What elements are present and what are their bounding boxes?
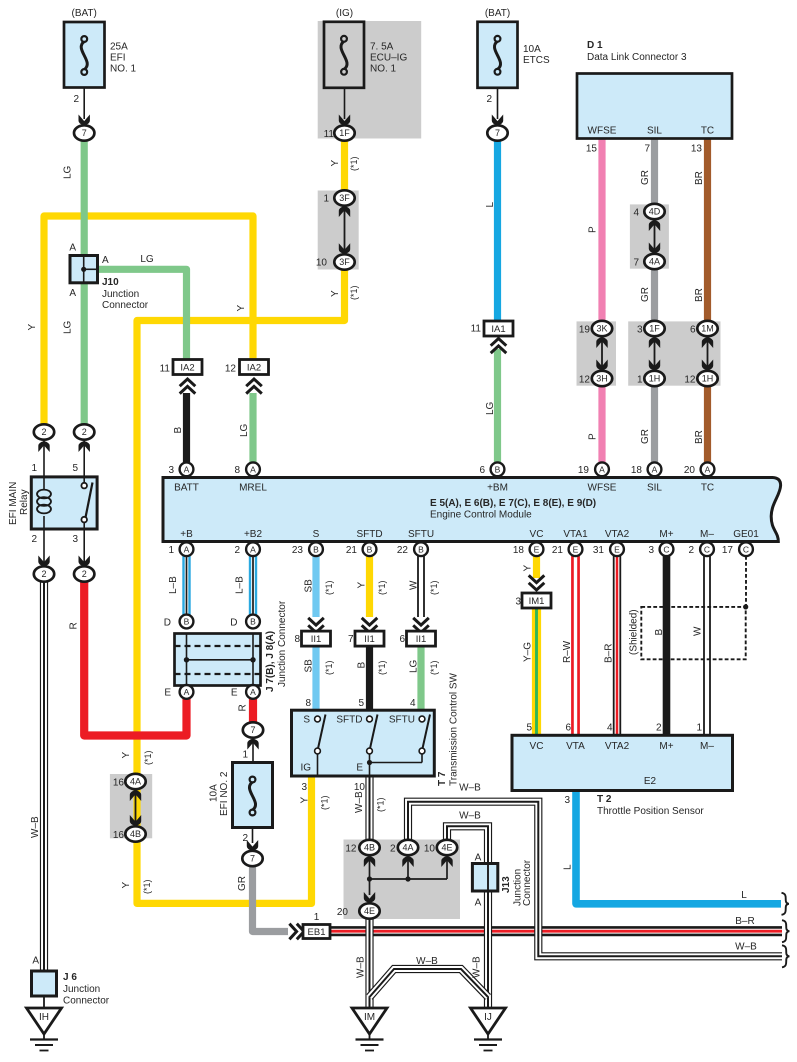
svg-text:2: 2 (656, 723, 662, 734)
wire Y yellow net: relay pin1 / top loop / to 12 IA2 (44, 216, 253, 425)
svg-text:J 7(B), J 8(A): J 7(B), J 8(A) (265, 631, 276, 692)
svg-text:L: L (563, 864, 574, 870)
svg-text:T 7: T 7 (437, 771, 448, 786)
svg-text:Junction: Junction (63, 984, 100, 995)
svg-text:3: 3 (515, 597, 521, 608)
svg-text:LG: LG (409, 659, 420, 673)
wire P WFSE (598, 139, 605, 321)
svg-text:NO. 1: NO. 1 (110, 64, 137, 75)
wire Y from IG fuse 1F to 3F (341, 141, 348, 198)
wire Y from ECM SFTD to II1 (366, 555, 373, 617)
svg-text:10: 10 (424, 844, 436, 855)
svg-text:Y: Y (121, 882, 132, 889)
svg-text:(*1): (*1) (143, 750, 153, 765)
wire B from 11 IA2 to ECM BATT (183, 393, 190, 462)
svg-text:3F: 3F (339, 257, 350, 267)
svg-text:1F: 1F (339, 128, 350, 138)
svg-text:E: E (164, 688, 171, 699)
svg-text:Transmission Control SW: Transmission Control SW (449, 672, 460, 786)
svg-text:22: 22 (397, 545, 409, 556)
svg-text:2: 2 (31, 534, 37, 545)
connector J6 (32, 971, 57, 996)
svg-text:10: 10 (316, 258, 328, 269)
svg-text:(*1): (*1) (320, 795, 330, 810)
svg-text:LG: LG (140, 254, 154, 265)
wire W M- (703, 555, 711, 734)
svg-text:Throttle Position Sensor: Throttle Position Sensor (597, 806, 704, 817)
connector EB1 (289, 924, 304, 940)
svg-text:EFI NO. 2: EFI NO. 2 (219, 771, 230, 816)
label T2 throttle position sensor E2 box (512, 735, 733, 790)
svg-text:(BAT): (BAT) (72, 8, 97, 19)
svg-text:W–B: W–B (459, 783, 481, 794)
svg-text:8: 8 (294, 634, 300, 645)
svg-text:R: R (238, 704, 249, 711)
svg-text:10A: 10A (209, 784, 220, 802)
svg-text:Junction Connector: Junction Connector (277, 600, 288, 687)
svg-text:BR: BR (694, 288, 705, 302)
wire B from II1 to T7 SFTD (366, 646, 373, 710)
wire GR from EFI NO.2 fuse to EB1 (253, 865, 289, 932)
gray background 1F/1M/1H connector (628, 321, 720, 385)
oval 2 relay pin2 (43, 529, 45, 564)
svg-text:(Shielded): (Shielded) (629, 609, 640, 655)
svg-text:7: 7 (348, 634, 354, 645)
wire W-B upper: 4A to right edge bottom (408, 802, 782, 957)
svg-text:W–B: W–B (354, 791, 365, 813)
svg-text:Y: Y (330, 290, 341, 297)
svg-text:4: 4 (633, 208, 639, 219)
svg-text:TC: TC (701, 483, 714, 494)
svg-text:IA2: IA2 (247, 362, 261, 373)
svg-text:7: 7 (495, 128, 500, 138)
gray background 3K/3H connector (577, 321, 617, 385)
wire L-B +B2 to junction D(B) (249, 555, 257, 615)
svg-text:11: 11 (160, 364, 171, 375)
svg-text:WFSE: WFSE (588, 126, 617, 137)
wire R junction E(A) +B2 to EFI NO.2 fuse (249, 698, 257, 723)
svg-text:3: 3 (648, 545, 654, 556)
svg-text:20: 20 (337, 907, 349, 918)
wire W-B ground link IM to IJ (370, 969, 489, 997)
svg-text:B: B (654, 629, 665, 636)
svg-text:IM: IM (364, 1012, 375, 1023)
transmission control switch T7 (292, 710, 435, 776)
svg-text:A: A (184, 464, 190, 474)
svg-text:4D: 4D (649, 207, 661, 217)
svg-text:VC: VC (530, 741, 544, 752)
wire Y yellow net: 3F down, horizontal, down to 4A/4B, bottom horizontal, up to T7 IG (137, 270, 345, 904)
svg-text:(*1): (*1) (324, 660, 334, 675)
svg-text:D: D (230, 618, 237, 629)
svg-text:18: 18 (513, 545, 525, 556)
svg-text:17: 17 (722, 545, 734, 556)
svg-text:S: S (313, 529, 320, 540)
svg-text:B: B (173, 427, 184, 434)
fuse 10A EFI NO.2 (233, 763, 273, 828)
svg-text:Relay: Relay (19, 489, 30, 515)
svg-text:A: A (250, 687, 256, 697)
svg-text:7: 7 (633, 258, 639, 269)
svg-text:19: 19 (579, 325, 591, 336)
svg-text:IA1: IA1 (491, 324, 505, 335)
wire B M+ (663, 555, 671, 734)
svg-text:1: 1 (323, 194, 329, 205)
wire SB from II1 to T7 S (312, 646, 319, 710)
svg-text:NO. 1: NO. 1 (370, 64, 397, 75)
svg-text:A: A (599, 464, 605, 474)
svg-text:21: 21 (346, 545, 358, 556)
wire GR SIL (651, 139, 658, 205)
oval 2 relay pin3 (83, 529, 85, 564)
svg-text:1: 1 (314, 912, 320, 923)
svg-text:Y: Y (27, 324, 38, 331)
svg-text:GR: GR (640, 170, 651, 185)
svg-text:Y: Y (330, 160, 341, 167)
junction connector J13 (472, 864, 497, 892)
svg-text:SIL: SIL (647, 126, 662, 137)
svg-text:3F: 3F (339, 193, 350, 203)
svg-text:A: A (475, 853, 482, 864)
svg-text:13: 13 (691, 144, 703, 155)
svg-text:16: 16 (113, 778, 125, 789)
svg-text:(IG): (IG) (336, 8, 353, 19)
svg-text:Y: Y (357, 582, 368, 589)
svg-text:R–W: R–W (562, 640, 573, 663)
svg-text:VTA2: VTA2 (605, 741, 630, 752)
svg-text:BR: BR (694, 171, 705, 185)
svg-text:1H: 1H (702, 374, 714, 384)
oval 7 above EFI NO.2 fuse (243, 722, 263, 737)
svg-text:M+: M+ (659, 741, 673, 752)
svg-text:T 2: T 2 (597, 794, 612, 805)
svg-text:B–R: B–R (604, 644, 615, 663)
svg-text:A: A (69, 288, 76, 299)
svg-text:Y: Y (523, 565, 534, 572)
svg-text:21: 21 (552, 545, 564, 556)
svg-text:Y: Y (300, 797, 311, 804)
svg-text:B: B (250, 617, 256, 627)
wire LG from 12 IA2 to ECM MREL (249, 393, 256, 462)
svg-text:3: 3 (301, 782, 307, 793)
svg-text:25A: 25A (110, 42, 128, 53)
svg-text:(*1): (*1) (349, 156, 359, 171)
svg-text:L: L (485, 202, 496, 208)
svg-text:Data Link Connector 3: Data Link Connector 3 (587, 52, 687, 63)
svg-text:+B: +B (180, 529, 193, 540)
svg-text:C: C (743, 544, 749, 554)
svg-text:SIL: SIL (647, 483, 662, 494)
svg-text:II1: II1 (416, 634, 427, 645)
svg-text:B: B (357, 662, 368, 669)
svg-text:Engine Control Module: Engine Control Module (430, 510, 532, 521)
svg-text:16: 16 (113, 830, 125, 841)
svg-text:4: 4 (607, 723, 613, 734)
svg-text:4B: 4B (130, 829, 141, 839)
svg-text:SFTU: SFTU (389, 715, 415, 726)
svg-text:W: W (409, 580, 420, 590)
svg-text:4A: 4A (402, 843, 413, 853)
svg-text:3: 3 (168, 465, 174, 476)
svg-text:ECU–IG: ECU–IG (370, 53, 407, 64)
svg-text:IM1: IM1 (529, 596, 545, 607)
svg-text:P: P (588, 226, 599, 233)
svg-text:2: 2 (688, 545, 694, 556)
svg-text:2: 2 (41, 427, 46, 437)
svg-text:J10: J10 (102, 277, 119, 288)
svg-text:W–B: W–B (356, 956, 367, 978)
svg-text:SFTD: SFTD (356, 529, 382, 540)
svg-text:6: 6 (399, 634, 405, 645)
svg-text:B–R: B–R (735, 916, 754, 927)
svg-text:A: A (475, 898, 482, 909)
svg-text:7: 7 (250, 854, 255, 864)
svg-text:2: 2 (41, 569, 46, 579)
wire W from ECM SFTU to II1 (417, 555, 425, 617)
svg-text:7. 5A: 7. 5A (370, 42, 394, 53)
svg-text:MREL: MREL (239, 483, 267, 494)
ground IH (27, 1008, 62, 1034)
svg-text:LG: LG (485, 401, 496, 415)
connector oval 7 below EFI NO.1 fuse (74, 125, 94, 140)
svg-text:12: 12 (345, 844, 357, 855)
svg-text:B: B (184, 617, 190, 627)
svg-text:L–B: L–B (168, 576, 179, 594)
svg-text:VTA: VTA (566, 741, 585, 752)
svg-text:3: 3 (72, 534, 78, 545)
svg-text:A: A (705, 464, 711, 474)
wire LG from IA1 to ECM +BM (494, 349, 501, 462)
svg-text:GR: GR (237, 876, 248, 891)
svg-text:A: A (652, 464, 658, 474)
svg-text:3H: 3H (596, 374, 608, 384)
svg-text:4E: 4E (441, 843, 452, 853)
svg-text:E: E (573, 544, 579, 554)
svg-text:2: 2 (82, 569, 87, 579)
svg-text:A: A (102, 255, 109, 266)
svg-text:(*1): (*1) (429, 660, 439, 675)
gray background 4A/4B connector left (110, 774, 152, 838)
ECM Engine Control Module box (163, 478, 781, 542)
wire W-B from 4E(20) to IM ground (365, 919, 373, 1009)
svg-text:W–B: W–B (459, 811, 481, 822)
svg-text:(*1): (*1) (377, 580, 387, 595)
svg-text:3: 3 (637, 325, 643, 336)
connector oval 7 below ETCS fuse (487, 125, 507, 140)
svg-text:SB: SB (304, 579, 315, 593)
svg-text:E: E (614, 544, 620, 554)
svg-text:P: P (588, 433, 599, 440)
svg-text:A: A (32, 956, 39, 967)
svg-text:(*1): (*1) (324, 580, 334, 595)
junction connector J10 (70, 256, 98, 283)
svg-text:1: 1 (637, 375, 643, 386)
svg-text:7: 7 (644, 144, 650, 155)
svg-text:Connector: Connector (522, 859, 533, 906)
svg-text:A: A (184, 687, 190, 697)
svg-text:SFTD: SFTD (336, 715, 362, 726)
svg-text:SB: SB (304, 659, 315, 673)
svg-text:GE01: GE01 (733, 529, 759, 540)
svg-text:+B2: +B2 (244, 529, 263, 540)
svg-text:20: 20 (684, 465, 696, 476)
oval 2 relay pin5 (83, 440, 85, 455)
svg-text:Y: Y (121, 752, 132, 759)
svg-text:IA2: IA2 (180, 362, 194, 373)
svg-text:VTA1: VTA1 (563, 529, 588, 540)
wire L-B +B to junction D(B) (182, 555, 190, 615)
svg-text:LG: LG (63, 320, 74, 334)
svg-text:6: 6 (690, 325, 696, 336)
svg-text:1: 1 (31, 463, 37, 474)
svg-text:S: S (303, 715, 310, 726)
svg-text:1M: 1M (701, 324, 714, 334)
wire B-R VTA2 (613, 555, 621, 734)
svg-text:Y: Y (236, 305, 247, 312)
svg-text:19: 19 (578, 465, 590, 476)
svg-text:(*1): (*1) (142, 879, 152, 894)
shield dashed box (641, 607, 745, 659)
svg-text:4E: 4E (364, 906, 375, 916)
svg-text:12: 12 (684, 375, 696, 386)
svg-text:7: 7 (250, 725, 255, 735)
svg-text:A: A (250, 544, 256, 554)
continuation brace W-B (782, 945, 790, 967)
svg-text:18: 18 (631, 465, 643, 476)
svg-text:Connector: Connector (63, 996, 110, 1007)
wire BR TC (704, 139, 711, 321)
gray background 3F connector (318, 191, 359, 270)
svg-text:IH: IH (39, 1012, 49, 1023)
svg-text:IJ: IJ (484, 1012, 492, 1023)
svg-text:BATT: BATT (174, 483, 199, 494)
svg-text:(*1): (*1) (376, 797, 386, 812)
svg-text:W–B: W–B (735, 942, 757, 953)
ground IJ (471, 1008, 506, 1034)
svg-text:J13: J13 (501, 876, 512, 893)
svg-text:(*1): (*1) (429, 580, 439, 595)
svg-text:1F: 1F (649, 324, 660, 334)
svg-text:15: 15 (586, 144, 598, 155)
wire W-B lower: 4E through J13 to IJ ground (447, 826, 488, 1008)
svg-text:W–B: W–B (30, 816, 41, 838)
svg-text:12: 12 (225, 364, 237, 375)
svg-text:M+: M+ (659, 529, 673, 540)
svg-text:+BM: +BM (487, 483, 508, 494)
svg-text:L: L (741, 890, 747, 901)
svg-text:3K: 3K (596, 324, 607, 334)
wire LG from EFI NO.1 fuse through J10 to relay pin 5 (81, 140, 88, 425)
svg-text:VTA2: VTA2 (605, 529, 630, 540)
svg-text:10A: 10A (523, 44, 541, 55)
svg-text:E: E (356, 763, 363, 774)
svg-text:(*1): (*1) (377, 660, 387, 675)
svg-text:5: 5 (72, 463, 78, 474)
wire SB from ECM S pin to II1 (312, 555, 319, 617)
svg-text:11: 11 (324, 129, 335, 140)
oval 7 below EFI NO.2 fuse (242, 851, 262, 866)
svg-text:11: 11 (471, 324, 482, 335)
svg-text:5: 5 (358, 698, 364, 709)
svg-text:J 6: J 6 (63, 972, 77, 983)
svg-text:2: 2 (486, 94, 492, 105)
svg-text:C: C (704, 544, 710, 554)
svg-text:IG: IG (300, 763, 311, 774)
svg-text:WFSE: WFSE (588, 483, 617, 494)
wire R-W VTA1 (571, 555, 580, 734)
svg-text:E: E (534, 544, 540, 554)
svg-text:ETCS: ETCS (523, 55, 550, 66)
wire W-B relay pin2 to J6 ground (40, 581, 48, 971)
svg-text:EB1: EB1 (308, 927, 326, 938)
svg-text:(BAT): (BAT) (485, 8, 510, 19)
svg-text:Junction: Junction (102, 289, 139, 300)
svg-text:4B: 4B (364, 843, 375, 853)
svg-text:1H: 1H (649, 374, 661, 384)
svg-text:D 1: D 1 (587, 40, 603, 51)
svg-text:TC: TC (701, 126, 714, 137)
svg-text:4A: 4A (649, 257, 660, 267)
wire L from ETCS fuse to IA1 (494, 141, 501, 321)
svg-text:2: 2 (73, 94, 79, 105)
svg-text:6: 6 (565, 723, 571, 734)
svg-text:2: 2 (390, 844, 396, 855)
EFI MAIN relay (31, 477, 97, 529)
svg-text:B: B (495, 464, 501, 474)
continuation brace B-R (782, 920, 790, 942)
svg-text:1: 1 (242, 750, 248, 761)
svg-text:4A: 4A (130, 777, 141, 787)
svg-text:5: 5 (526, 723, 532, 734)
wire GE01 dashed shield drain (745, 556, 747, 607)
wire W-B from T7 E to 4B (365, 776, 373, 839)
svg-text:II1: II1 (364, 634, 375, 645)
continuation brace L (782, 893, 790, 915)
svg-text:B: B (367, 544, 373, 554)
wire R relay pin3 to junction E(A) +B (84, 580, 186, 736)
svg-text:VC: VC (530, 529, 544, 540)
wire Y from ECM VC to IM1 (533, 555, 540, 578)
gray background 4D/4A connector (630, 204, 669, 268)
svg-text:D: D (164, 618, 171, 629)
svg-text:6: 6 (479, 465, 485, 476)
svg-text:GR: GR (640, 429, 651, 444)
svg-text:M–: M– (700, 741, 714, 752)
svg-text:R: R (69, 622, 80, 629)
svg-text:E 5(A), E 6(B), E 7(C), E 8(E): E 5(A), E 6(B), E 7(C), E 8(E), E 9(D) (430, 498, 596, 509)
svg-text:W–B: W–B (416, 956, 438, 967)
svg-text:M–: M– (700, 529, 714, 540)
svg-text:A: A (250, 464, 256, 474)
svg-text:BR: BR (694, 430, 705, 444)
svg-text:EFI: EFI (110, 53, 126, 64)
svg-text:B: B (418, 544, 424, 554)
svg-text:E: E (231, 688, 238, 699)
svg-text:Y–G: Y–G (523, 642, 534, 662)
gray background 4B/4A/4E connector bottom (344, 840, 461, 920)
connector oval 1F (334, 125, 354, 140)
svg-text:SFTU: SFTU (408, 529, 434, 540)
ground IM (352, 1008, 387, 1034)
wire Y-G from IM1 to E2 VC (532, 607, 541, 734)
svg-text:7: 7 (82, 128, 87, 138)
svg-text:A: A (69, 243, 76, 254)
svg-text:LG: LG (239, 423, 250, 437)
wire L from T2 pin3 to right edge (576, 791, 781, 904)
wire LG from II1 to T7 SFTU (417, 646, 424, 710)
svg-text:A: A (184, 544, 190, 554)
svg-text:2: 2 (82, 427, 87, 437)
